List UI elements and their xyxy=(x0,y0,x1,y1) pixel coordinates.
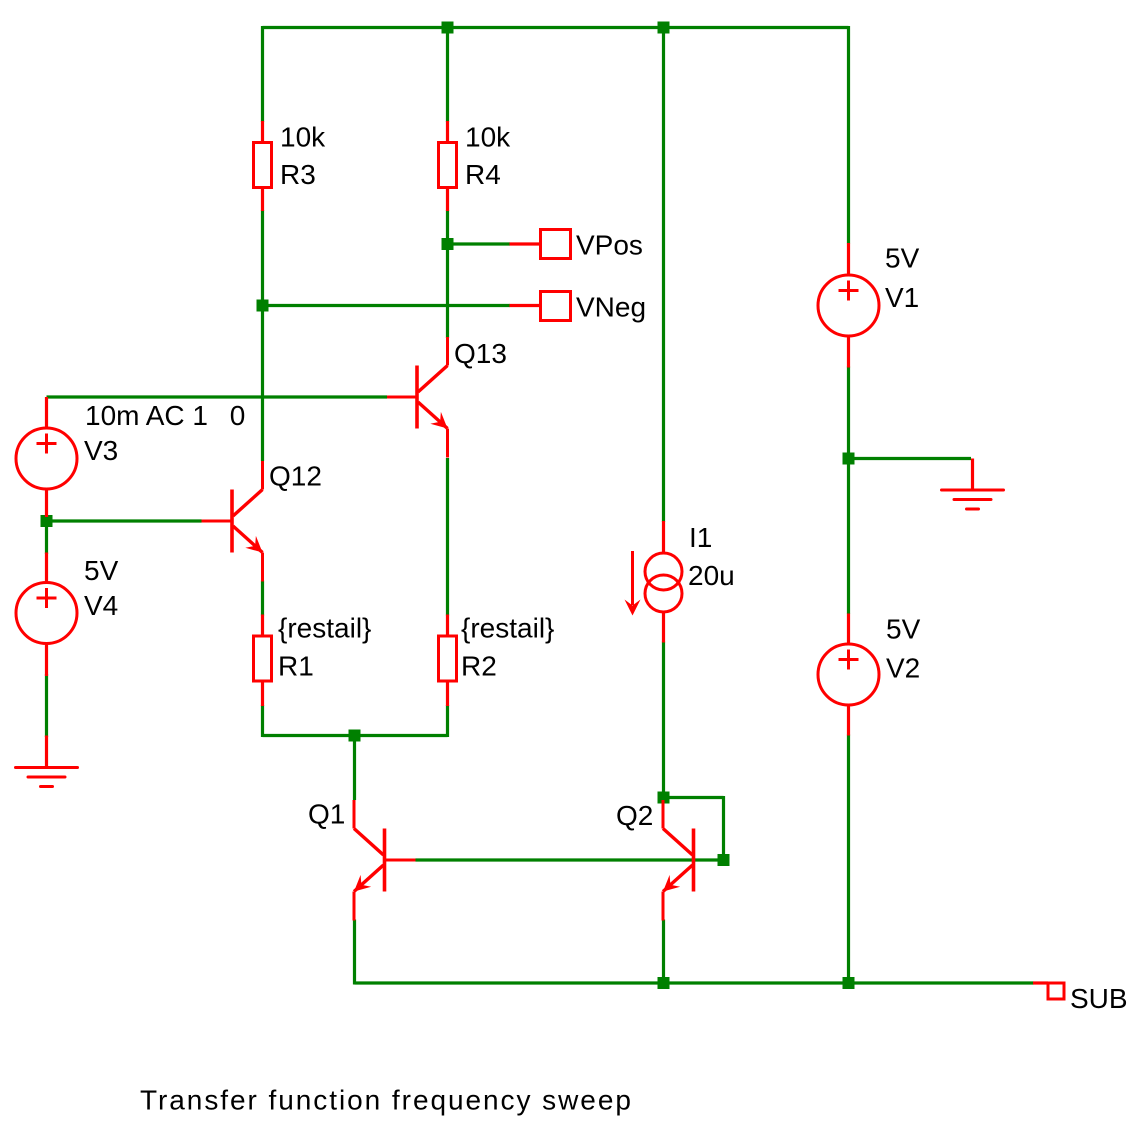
svg-text:Q12: Q12 xyxy=(269,461,322,492)
svg-text:Transfer function frequency sw: Transfer function frequency sweep xyxy=(140,1085,633,1116)
svg-text:V2: V2 xyxy=(886,653,920,684)
svg-text:Q1: Q1 xyxy=(308,799,345,830)
svg-text:V4: V4 xyxy=(84,590,118,621)
svg-text:V3: V3 xyxy=(84,435,118,466)
svg-text:R4: R4 xyxy=(465,159,501,190)
svg-text:5V: 5V xyxy=(886,614,921,645)
svg-text:R2: R2 xyxy=(461,651,497,682)
svg-text:R1: R1 xyxy=(278,651,314,682)
svg-text:5V: 5V xyxy=(84,555,119,586)
svg-text:{restail}: {restail} xyxy=(278,613,371,644)
svg-text:R3: R3 xyxy=(280,159,316,190)
svg-text:SUB: SUB xyxy=(1070,983,1128,1014)
svg-text:VNeg: VNeg xyxy=(576,292,646,323)
svg-text:VPos: VPos xyxy=(576,230,643,261)
svg-text:Q13: Q13 xyxy=(454,338,507,369)
svg-text:10k: 10k xyxy=(465,122,511,153)
svg-text:10k: 10k xyxy=(280,122,326,153)
svg-text:{restail}: {restail} xyxy=(461,613,554,644)
svg-text:10m AC 1 0: 10m AC 1 0 xyxy=(85,400,245,431)
svg-text:Q2: Q2 xyxy=(616,800,653,831)
svg-text:I1: I1 xyxy=(689,522,712,553)
svg-text:V1: V1 xyxy=(885,282,919,313)
svg-text:20u: 20u xyxy=(688,560,735,591)
svg-text:5V: 5V xyxy=(885,243,920,274)
